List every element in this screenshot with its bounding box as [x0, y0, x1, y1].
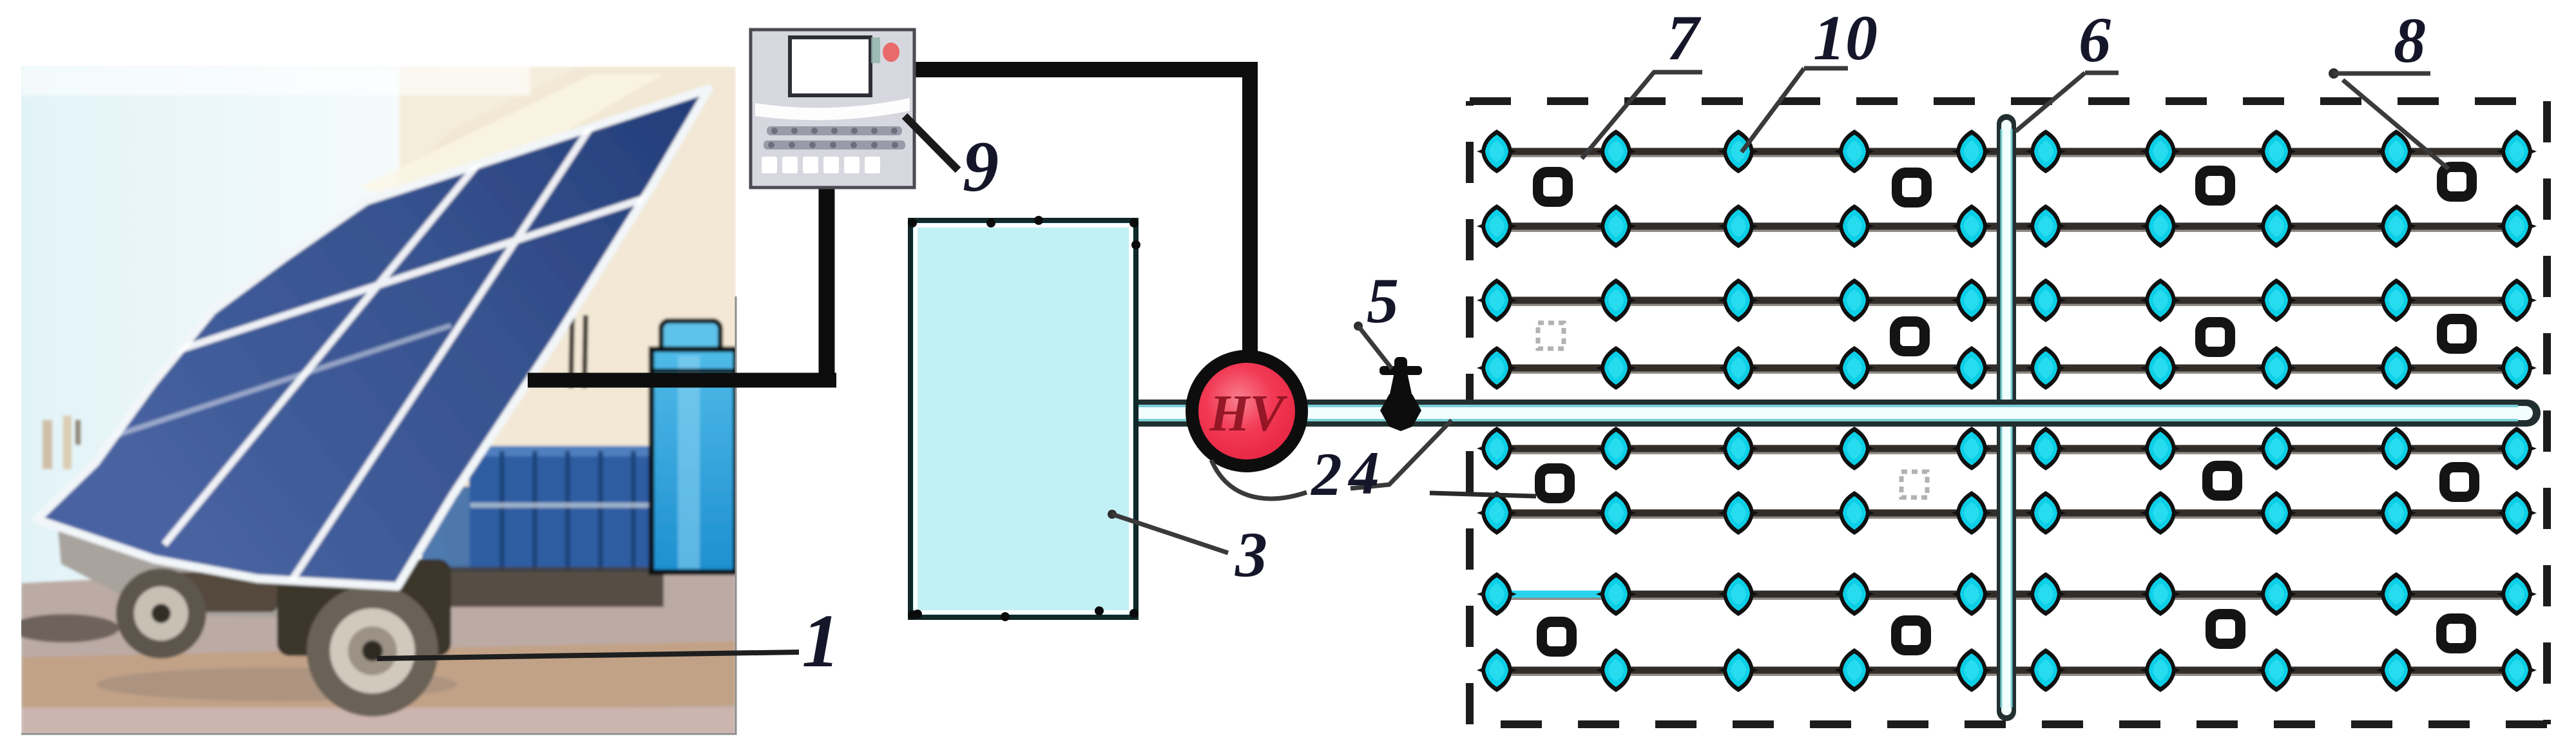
controller / datalogger unit 9	[751, 30, 914, 188]
svg-text:3: 3	[1235, 519, 1267, 590]
svg-text:2: 2	[1310, 440, 1342, 508]
valve 5	[1379, 357, 1422, 431]
wire from controller down-left to solar panel	[819, 184, 835, 387]
leader to label 4	[1350, 420, 1452, 488]
distribution pipe 6	[2001, 124, 2012, 711]
plants 8	[1538, 167, 2474, 651]
wire from controller to pump	[912, 70, 1250, 361]
main pipe 4 from tank/pump to field	[1121, 406, 2527, 420]
svg-text:5: 5	[1367, 265, 1399, 336]
leader to label 3	[1108, 510, 1117, 519]
label 8	[2329, 68, 2339, 79]
label 10	[1804, 66, 1848, 71]
svg-text:10: 10	[1813, 2, 1878, 73]
svg-text:4: 4	[1347, 439, 1379, 507]
label 6	[2085, 71, 2119, 75]
leader to plant square	[1430, 493, 1536, 496]
leader to label 2	[1211, 460, 1307, 499]
solar panel on trailer	[37, 89, 709, 586]
water tank 3	[910, 220, 1136, 617]
svg-text:1: 1	[802, 599, 840, 683]
svg-text:HV: HV	[1209, 385, 1287, 442]
svg-text:7: 7	[1667, 2, 1702, 73]
highlighted lateral segment	[1497, 591, 1616, 598]
leader to label 9	[905, 116, 958, 170]
photo of mobile solar panel unit (item 1)	[10, 66, 736, 734]
pump HV 2	[1186, 350, 1308, 472]
svg-text:9: 9	[963, 127, 999, 207]
drip lateral lines with emitters 10	[1497, 151, 2517, 156]
irrigated field dashed boundary 7	[1470, 101, 2547, 724]
label 7	[1653, 70, 1702, 75]
svg-text:8: 8	[2394, 5, 2426, 76]
svg-text:6: 6	[2079, 4, 2111, 75]
leader to label 1 (wheel of trailer)	[377, 652, 799, 659]
